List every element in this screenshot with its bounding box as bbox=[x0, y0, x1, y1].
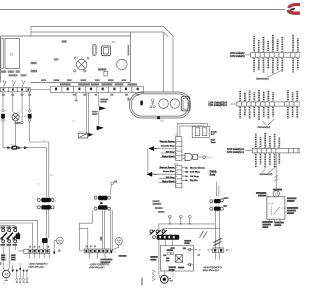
battery symbol near strip E bbox=[115, 238, 122, 245]
svg-text:1234 Gialla(S)-N: 1234 Gialla(S)-N bbox=[227, 149, 244, 151]
resistors MEM NEM bbox=[168, 252, 171, 255]
svg-text:Righe Black: Righe Black bbox=[162, 181, 175, 183]
svg-text:M: M bbox=[5, 272, 8, 277]
relay box bbox=[267, 197, 285, 219]
relay b1 box bbox=[5, 39, 20, 69]
dashed wire below box bbox=[172, 271, 174, 278]
labels right of bar bbox=[184, 240, 191, 244]
wire from strip C down to relay bbox=[275, 153, 277, 191]
svg-text:12V: 12V bbox=[18, 264, 22, 266]
instrument pod bbox=[130, 92, 191, 118]
hatch marks bbox=[213, 238, 221, 242]
svg-text:SAS: SAS bbox=[211, 138, 216, 141]
electronic control box bbox=[161, 246, 194, 272]
rounded square relay bbox=[102, 46, 111, 56]
red logo (cut at right edge) bbox=[288, 5, 300, 14]
pin number labels below strip bbox=[2, 94, 140, 96]
black connector bar bbox=[157, 235, 180, 240]
svg-text:5A 15: 5A 15 bbox=[10, 143, 16, 146]
svg-text:1234 Gialla(SN)-S: 1234 Gialla(SN)-S bbox=[208, 105, 227, 107]
pod bottom tick + label b2 bbox=[157, 117, 160, 120]
bridge rectifier bbox=[175, 255, 183, 263]
misc small marks bbox=[225, 197, 228, 199]
top connector strip (left part) bbox=[0, 87, 30, 92]
vertical slab from bar down to pod bbox=[164, 32, 174, 92]
wire 2 bbox=[163, 228, 220, 231]
plain circle bbox=[117, 59, 127, 69]
arrow on wire bbox=[24, 146, 27, 149]
svg-text:Tank: Tank bbox=[211, 142, 217, 144]
wires down to right cluster bbox=[216, 182, 218, 196]
strip C labels above (wire colour text columns) bbox=[256, 133, 279, 148]
strip 2 bbox=[176, 165, 182, 187]
pin labels inside box above strip bbox=[41, 79, 126, 81]
svg-text:Gri Gray: Gri Gray bbox=[190, 176, 200, 178]
top header rule bbox=[0, 9, 285, 11]
svg-text:+B: +B bbox=[198, 249, 201, 252]
labels under left boxes bbox=[1, 70, 27, 76]
labels pointing at stubs bbox=[153, 200, 165, 212]
svg-text:(30)V-50Ka-(5)-\: (30)V-50Ka-(5)-\ bbox=[203, 270, 219, 272]
svg-text:+(15)V-T(15)K(1P)-\: +(15)V-T(15)K(1P)-\ bbox=[90, 264, 110, 266]
GMA CLAK labels bbox=[150, 256, 157, 261]
svg-text:HV 1: HV 1 bbox=[79, 131, 85, 133]
feed arrow 1 bbox=[149, 146, 155, 151]
svg-text:Gri Gray: Gri Gray bbox=[166, 152, 176, 154]
capsule C bbox=[92, 44, 96, 56]
svg-text:1234 Gialla(S): 1234 Gialla(S) bbox=[230, 53, 245, 55]
chevron marks left bbox=[152, 270, 155, 281]
strip A labels below (wire colour text columns) bbox=[254, 58, 298, 73]
pod square window bbox=[181, 96, 189, 111]
vertical label bar bbox=[128, 45, 130, 56]
stub wire x76 bbox=[75, 93, 77, 100]
long double wire x110-112 bbox=[110, 210, 112, 250]
svg-text:2: 2 bbox=[174, 102, 176, 106]
cable marker dashes left of double wire bbox=[200, 231, 208, 239]
down arrow wire bbox=[12, 265, 14, 270]
relay b0 (narrow box left) bbox=[1, 39, 3, 69]
black wedge right of box bbox=[88, 133, 93, 137]
svg-text:K A: K A bbox=[269, 202, 274, 206]
capacitor top bbox=[189, 248, 191, 251]
svg-text:harness(sx): harness(sx) bbox=[258, 126, 271, 129]
label T036 Body bbox=[210, 172, 217, 177]
pod left stub bbox=[127, 98, 131, 100]
relay pin stubs bbox=[269, 219, 271, 222]
double wire below cluster bbox=[45, 210, 47, 239]
fuse F oval bbox=[11, 146, 18, 150]
svg-text:1: 1 bbox=[163, 102, 165, 106]
strip B pin ticks bbox=[239, 101, 296, 107]
wires from bar down to box bbox=[164, 240, 166, 246]
pod black mark bbox=[140, 101, 143, 106]
small square component bbox=[104, 71, 108, 76]
connector box S2 bbox=[28, 114, 32, 119]
svg-text:Marron Brown: Marron Brown bbox=[160, 167, 175, 169]
wire 2 + lamp L3 bbox=[12, 92, 14, 112]
svg-text:1234 Gialla(N): 1234 Gialla(N) bbox=[230, 56, 245, 58]
svg-text:(2)1: (2)1 bbox=[174, 162, 179, 166]
small labels inside box bbox=[163, 247, 186, 270]
svg-text:Gri Gray: Gri Gray bbox=[166, 177, 176, 179]
left small texts bbox=[100, 255, 126, 263]
arrow after fuse bbox=[18, 146, 21, 149]
wires to motor bbox=[158, 240, 160, 275]
strip A pin ticks bbox=[253, 52, 297, 58]
black connector blob above strip D bbox=[42, 238, 48, 243]
fuse wire across bbox=[3, 147, 11, 149]
junction stubs with rings bbox=[169, 215, 192, 224]
pins in left strip bbox=[3, 88, 30, 90]
strip B labels below (wire colour text columns) bbox=[240, 107, 297, 120]
labels below second row bbox=[0, 244, 17, 246]
svg-text:R1: R1 bbox=[112, 40, 116, 44]
wire color labels strip1 bbox=[160, 141, 176, 158]
switch block component T bbox=[16, 234, 20, 240]
wire 1 bbox=[2, 92, 4, 110]
pointer to harness label A bbox=[268, 71, 282, 78]
relay label leader lines bbox=[266, 194, 286, 221]
wires into strip2 bbox=[158, 168, 175, 182]
svg-text:(T036): (T036) bbox=[210, 172, 217, 174]
wire 3 bbox=[21, 92, 23, 122]
pointers to harness label C bbox=[262, 170, 265, 173]
labels above switch row bbox=[0, 227, 17, 229]
relay labels bbox=[256, 189, 298, 228]
svg-text:+(30)V-T(30)4(1P)-\: +(30)V-T(30)4(1P)-\ bbox=[203, 267, 223, 269]
strip B labels above (wire colour text columns) bbox=[240, 90, 297, 101]
contacts above bar bbox=[150, 230, 165, 233]
strip A labels above (wire colour text columns) bbox=[254, 35, 298, 52]
strip C pin ticks bbox=[255, 148, 279, 154]
svg-text:b1: b1 bbox=[10, 53, 14, 57]
svg-text:1M: 1M bbox=[185, 172, 188, 174]
double wire x87 down to component bbox=[86, 93, 88, 134]
wire 4 bend bbox=[30, 141, 49, 143]
svg-text:Aranc Blue: Aranc Blue bbox=[163, 170, 175, 173]
svg-text:harness(sx): harness(sx) bbox=[256, 77, 269, 80]
wire 1 bbox=[159, 224, 215, 230]
wire bend down to splice cluster bbox=[45, 148, 47, 197]
fan motor symbol bbox=[74, 58, 89, 73]
strip C labels below (wire colour text columns) bbox=[256, 154, 279, 169]
strip 1 bbox=[176, 137, 182, 161]
right side pin wires strip2 bbox=[182, 168, 185, 181]
svg-text:1234 Gialla(SN)-N: 1234 Gialla(SN)-N bbox=[208, 103, 227, 105]
svg-text:1234 Gialla(S)-S: 1234 Gialla(S)-S bbox=[227, 152, 244, 154]
battery symbol near strip D bbox=[56, 237, 63, 244]
motor M1 bbox=[2, 270, 9, 277]
svg-text:Righe Black: Righe Black bbox=[162, 156, 175, 158]
svg-text:(15)i-50Kg-(5)-\: (15)i-50Kg-(5)-\ bbox=[90, 267, 105, 269]
double wire below right cluster bbox=[214, 211, 216, 248]
bus lines to middle cluster / strip E bbox=[79, 210, 92, 223]
top thin 3D bar (harness) bbox=[31, 27, 173, 37]
svg-text:MM: MM bbox=[75, 57, 79, 59]
svg-text:Arancio Blue: Arancio Blue bbox=[161, 144, 175, 147]
svg-text:+(30)V-T(30)4(1P)-\: +(30)V-T(30)4(1P)-\ bbox=[29, 264, 49, 266]
wires into strip1 bbox=[158, 143, 176, 158]
wire 4 bbox=[29, 92, 31, 110]
pointer to harness label B bbox=[263, 121, 267, 125]
labels on wires bbox=[1, 254, 16, 260]
pin number labels above strip D bbox=[29, 246, 49, 248]
arrow into fuse bbox=[7, 146, 10, 149]
capacitor bottom bbox=[189, 263, 191, 266]
svg-text:Marron Brown: Marron Brown bbox=[190, 167, 205, 169]
motor M2 bbox=[160, 275, 168, 283]
relay coil hatch bbox=[274, 191, 276, 195]
svg-text:Rig Blu: Rig Blu bbox=[190, 180, 198, 182]
pin name labels above right strip bbox=[60, 83, 137, 85]
svg-text:Body: Body bbox=[210, 175, 216, 177]
pod gauge 1 bbox=[159, 99, 169, 109]
thermo component box bbox=[78, 133, 87, 138]
strip1 top loop to resistor box bbox=[177, 123, 207, 136]
svg-text:Marron Brown: Marron Brown bbox=[160, 141, 175, 143]
switch contacts above left strip bbox=[4, 80, 25, 87]
gate symbol + LED bbox=[185, 153, 192, 160]
pins in right strip bbox=[55, 88, 139, 91]
pod gauge 2 bbox=[170, 99, 179, 108]
pod icon bbox=[150, 99, 155, 108]
link wire between strips bbox=[30, 89, 50, 91]
relay K coil bbox=[273, 190, 279, 196]
wires below middle cluster bbox=[101, 210, 103, 249]
svg-text:harness(sx): harness(sx) bbox=[260, 173, 273, 176]
labels right of resistor box bbox=[211, 132, 218, 137]
svg-text:LED 1: LED 1 bbox=[206, 157, 213, 160]
control unit box outline bbox=[1, 32, 131, 82]
+B stub right of box bbox=[194, 249, 198, 251]
wires below switch array bbox=[2, 243, 4, 267]
vertical link bus bbox=[147, 149, 149, 175]
feed arrow 2 bbox=[147, 172, 153, 177]
resistor box bbox=[192, 126, 209, 137]
splice ring above cluster bbox=[111, 182, 113, 184]
wire x98.8 with wedges bbox=[98, 93, 100, 107]
top connector strip (right part) bbox=[50, 86, 143, 92]
misc tiny labels in box bbox=[31, 40, 107, 72]
stubs below strip D bbox=[29, 253, 49, 258]
switch contact blades (bold) bbox=[1, 233, 19, 239]
connector box S1 bbox=[1, 114, 5, 119]
svg-text:Ardi Blue: Ardi Blue bbox=[190, 171, 201, 174]
svg-text:(30)V-50Ka-(5)-\: (30)V-50Ka-(5)-\ bbox=[29, 267, 45, 269]
